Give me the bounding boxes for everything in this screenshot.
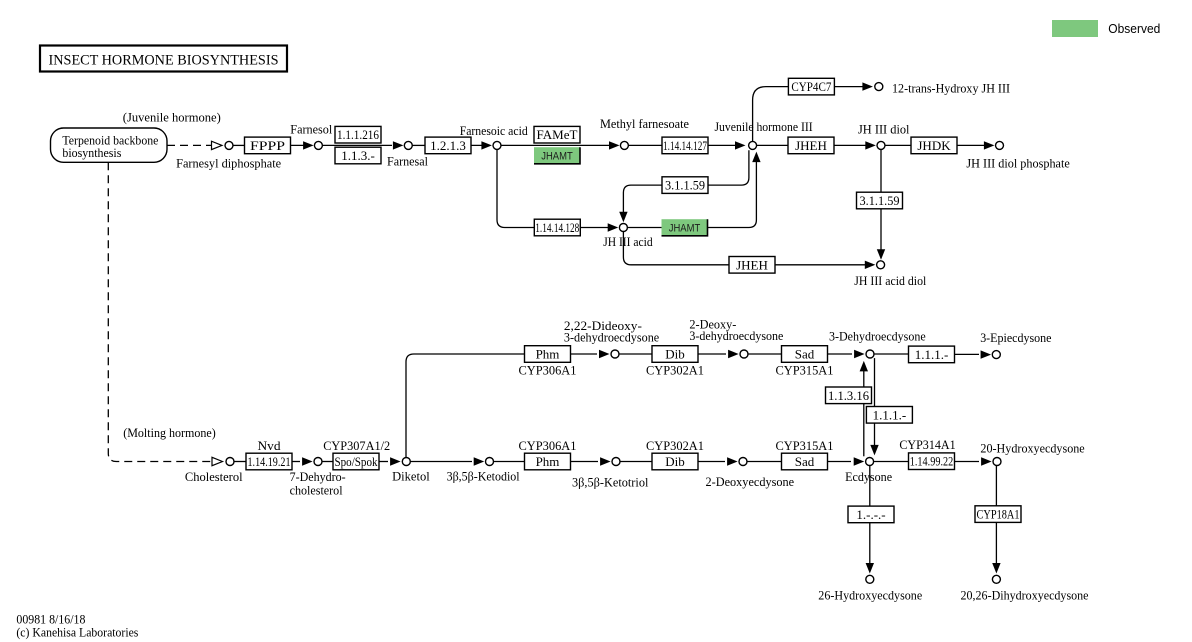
arrowhead into farnesoic acid [481, 141, 492, 149]
node JH III acid diol [877, 261, 885, 269]
gene box JHAMT (observed) bottom [662, 219, 708, 236]
wire CYP4C7 to 12-trans-hydroxy JH III [835, 86, 870, 88]
enzyme box 1.1.3.16 [826, 387, 872, 404]
svg-text:Ecdysone: Ecdysone [845, 469, 892, 484]
enzyme box FAMeT [534, 126, 580, 143]
svg-text:1.1.1.216: 1.1.1.216 [337, 127, 379, 142]
wire 3.1.1.59 right up to juvenile hormone III [708, 150, 749, 185]
wire Sad to ecdysone [828, 461, 852, 463]
wire juvenile hormone III up to CYP4C7 [753, 87, 789, 142]
svg-text:INSECT HORMONE BIOSYNTHESIS: INSECT HORMONE BIOSYNTHESIS [49, 53, 279, 69]
enzyme box FPPP [245, 137, 291, 154]
svg-text:1.-.-.-: 1.-.-.- [856, 507, 885, 522]
svg-text:Diketol: Diketol [392, 468, 430, 483]
arrowhead into 12-trans-hydroxy JH III [862, 82, 873, 90]
arrowhead into JH III acid from 3.1.1.59 [619, 212, 627, 223]
wire 1.1.1.- to 3-epiecdysone [955, 353, 980, 355]
svg-text:1.2.1.3: 1.2.1.3 [430, 138, 466, 153]
node Farnesol [314, 141, 322, 149]
svg-text:Phm: Phm [536, 347, 560, 362]
enzyme box Sad lower [782, 453, 828, 470]
node JH III diol phosphate [996, 141, 1004, 149]
svg-text:1.14.99.22: 1.14.99.22 [910, 454, 954, 469]
svg-text:2-Deoxyecdysone: 2-Deoxyecdysone [706, 474, 795, 489]
svg-text:3-dehydroecdysone: 3-dehydroecdysone [564, 329, 660, 344]
wire Dib to 2-deoxyecdysone [698, 461, 725, 463]
enzyme box Phm upper [525, 346, 571, 363]
wire 20-hydroxyecdysone down to CYP18A1 [995, 466, 997, 506]
wire Phm to ketotriol [571, 461, 599, 463]
svg-text:biosynthesis: biosynthesis [62, 145, 121, 160]
enzyme box 1.-.-.- [848, 506, 894, 523]
svg-text:JH III diol phosphate: JH III diol phosphate [966, 155, 1070, 170]
arrowhead into 3-epiecdysone [981, 350, 992, 358]
svg-text:20,26-Dihydroxyecdysone: 20,26-Dihydroxyecdysone [961, 588, 1089, 603]
svg-text:FPPP: FPPP [250, 138, 285, 153]
wire diketol to ketodiol [411, 461, 473, 463]
wire dashed link terpenoid to cholesterol-row [167, 144, 211, 146]
svg-text:3.1.1.59: 3.1.1.59 [860, 193, 900, 208]
node 3b,5b-Ketodiol [486, 458, 494, 466]
title box [40, 46, 287, 72]
node JH III acid [619, 224, 627, 232]
wire juvenile hormone III to JHEH [757, 144, 788, 146]
arrowhead into JH III acid [608, 223, 619, 231]
enzyme box Phm lower [525, 453, 571, 470]
wire cholesterol to 1.14.19.21 [234, 461, 246, 463]
enzyme box 1.14.19.21 [246, 453, 292, 470]
wire ecdysone to 1.14.99.22 [874, 461, 909, 463]
node 3-Dehydroecdysone [866, 350, 874, 358]
node Farnesal [404, 141, 412, 149]
arrowhead into 2,22-dideoxy-3-dehydroecdysone [599, 350, 610, 358]
wire 3.1.1.59 down to JH III acid diol [880, 209, 882, 250]
enzyme box 1.14.14.128 [534, 219, 580, 236]
wire JH III diol to JHDK [885, 144, 911, 146]
svg-text:Methyl farnesoate: Methyl farnesoate [600, 116, 689, 131]
enzyme box CYP4C7 [788, 78, 834, 95]
wire ecdysone down to 1.-.-.- [869, 466, 871, 506]
wire JH III acid to JHAMT [628, 227, 662, 229]
enzyme box Spo/Spok [333, 453, 379, 470]
node 3-Epiecdysone [992, 351, 1000, 359]
wire Phm upper to 2,22-dideoxy-3-dehydroecdysone [571, 353, 598, 355]
wire 1.14.19.21 to 7-dehydrocholesterol [292, 461, 300, 463]
wire 1.14.14.128 to JH III acid [580, 227, 615, 229]
arrowhead into 2-deoxyecdysone [727, 457, 738, 465]
wire 2-deoxyecdysone to Sad [747, 461, 781, 463]
svg-text:Sad: Sad [795, 454, 815, 469]
node Ecdysone [866, 458, 874, 466]
enzyme box 1.1.1.- upper right [909, 346, 955, 363]
svg-text:1.14.14.127: 1.14.14.127 [663, 138, 707, 153]
svg-text:JHDK: JHDK [917, 138, 951, 153]
arrowhead into 7-dehydrocholesterol [302, 457, 313, 465]
node Diketol [402, 458, 410, 466]
svg-text:3-dehydroecdysone: 3-dehydroecdysone [689, 328, 783, 343]
node 3b,5b-Ketotriol [612, 458, 620, 466]
wire JH III acid down to JHEH [623, 232, 729, 265]
svg-text:CYP302A1: CYP302A1 [646, 438, 704, 453]
wire farnesyl diphosphate to FPPP [233, 144, 244, 146]
svg-text:26-Hydroxyecdysone: 26-Hydroxyecdysone [818, 588, 922, 603]
wire 7-dehydrocholesterol to Spo/Spok [322, 461, 333, 463]
svg-text:1.1.3.-: 1.1.3.- [341, 148, 375, 163]
arrowhead into 20-hydroxyecdysone [981, 457, 992, 465]
arrowhead open into cholesterol [212, 457, 223, 465]
arrowhead into ketodiol [474, 457, 485, 465]
wire to Dib upper [619, 353, 652, 355]
node 7-Dehydrocholesterol [314, 458, 322, 466]
arrowhead into ketotriol [600, 457, 611, 465]
svg-text:JHAMT: JHAMT [669, 223, 701, 235]
node Juvenile hormone III [749, 141, 757, 149]
arrowhead into JH III diol phosphate [984, 141, 995, 149]
arrowhead into farnesol [303, 141, 314, 149]
svg-text:(Molting hormone): (Molting hormone) [123, 425, 216, 440]
arrowhead into 3-dehydroecdysone [854, 350, 865, 358]
wire 1.1.3.16 up line [863, 367, 865, 387]
svg-text:JH III acid: JH III acid [603, 234, 653, 249]
svg-text:20-Hydroxyecdysone: 20-Hydroxyecdysone [980, 440, 1085, 455]
enzyme box CYP18A1 [975, 506, 1021, 523]
svg-text:CYP307A1/2: CYP307A1/2 [323, 438, 390, 453]
arrowhead into juvenile hormone III [735, 141, 746, 149]
enzyme box Sad upper [782, 346, 828, 363]
arrowhead into farnesal [393, 141, 404, 149]
wire JHEH to JH III acid diol [775, 264, 873, 266]
enzyme box 1.1.3.- [335, 147, 381, 164]
svg-text:3β,5β-Ketotriol: 3β,5β-Ketotriol [572, 475, 649, 490]
wire CYP18A1 down to 20,26-dihydroxyecdysone [995, 522, 997, 563]
wire farnesol to farnesal [323, 144, 392, 146]
svg-text:CYP306A1: CYP306A1 [519, 363, 577, 378]
arrowhead into diketol [390, 457, 401, 465]
wire JHDK to JH III diol phosphate [957, 144, 992, 146]
arrowhead into 3-dehydroecdysone from 1.1.3.16 [860, 361, 868, 372]
wire methyl farnesoate to juvenile hormone III [629, 144, 735, 146]
svg-text:JH III acid diol: JH III acid diol [854, 273, 926, 288]
wire dashed link terpenoid to cholesterol [108, 162, 211, 461]
node 26-Hydroxyecdysone [866, 575, 874, 583]
wire 1.-.-.- down to 26-hydroxyecdysone [869, 523, 871, 563]
node JH III diol [877, 141, 885, 149]
svg-text:JHAMT: JHAMT [541, 151, 573, 163]
node 20,26-Dihydroxyecdysone [992, 575, 1000, 583]
svg-text:Farnesal: Farnesal [387, 153, 428, 168]
svg-text:3-Epiecdysone: 3-Epiecdysone [980, 330, 1051, 345]
svg-text:1.14.19.21: 1.14.19.21 [248, 454, 291, 469]
wire diketol up to Phm upper [406, 354, 524, 457]
arrowhead into JH III diol [865, 141, 876, 149]
svg-text:Phm: Phm [536, 454, 560, 469]
svg-text:CYP315A1: CYP315A1 [776, 438, 834, 453]
node Cholesterol [226, 458, 234, 466]
wire farnesoic acid to methyl farnesoate [501, 144, 617, 146]
arrowhead into JH III acid diol from above [877, 249, 885, 260]
node 12-trans-Hydroxy JH III [875, 83, 883, 91]
wire Spo/Spok to diketol [379, 461, 388, 463]
node Methyl farnesoate [620, 141, 628, 149]
wire FPPP to farnesol [291, 144, 312, 146]
arrowhead into JH III acid diol [865, 261, 876, 269]
node 2,22-Dideoxy-3-dehydroecdysone [611, 350, 619, 358]
wire 1.1.3.16 down to ecdysone [863, 404, 865, 457]
wire 1.2.1.3 to farnesoic acid [471, 144, 489, 146]
svg-text:1.1.3.16: 1.1.3.16 [828, 388, 869, 403]
enzyme box 1.14.99.22 [909, 453, 955, 470]
svg-text:cholesterol: cholesterol [290, 482, 343, 497]
node 2-Deoxyecdysone [739, 458, 747, 466]
wire farnesoic acid down to 1.14.14.128 [497, 150, 534, 228]
enzyme box Dib upper [652, 346, 698, 363]
node Farnesyl diphosphate [225, 141, 233, 149]
arrowhead into ecdysone from 1.1.1.- [870, 445, 878, 456]
svg-text:Observed: Observed [1108, 22, 1160, 36]
enzyme box 1.14.14.127 [662, 137, 708, 154]
svg-text:JHEH: JHEH [795, 138, 827, 153]
svg-text:1.1.1.-: 1.1.1.- [873, 407, 907, 422]
svg-text:CYP306A1: CYP306A1 [519, 438, 577, 453]
svg-text:CYP302A1: CYP302A1 [646, 363, 704, 378]
map link box Terpenoid backbone biosynthesis [51, 128, 168, 162]
svg-text:FAMeT: FAMeT [537, 127, 578, 142]
wire farnesal to 1.2.1.3 [413, 144, 426, 146]
svg-text:3-Dehydroecdysone: 3-Dehydroecdysone [829, 328, 926, 343]
svg-text:JHEH: JHEH [736, 257, 768, 272]
enzyme box JHDK [911, 137, 957, 154]
svg-text:3.1.1.59: 3.1.1.59 [665, 178, 705, 193]
legend observed color box [1052, 20, 1098, 37]
arrowhead into ecdysone [854, 457, 865, 465]
wire 3-dehydroecdysone down to 1.1.1.- [874, 358, 876, 406]
wire to Sad upper [748, 353, 781, 355]
svg-text:CYP315A1: CYP315A1 [776, 363, 834, 378]
enzyme box 1.1.1.216 [335, 126, 381, 143]
svg-text:JH III diol: JH III diol [858, 122, 910, 137]
wire ketodiol to Phm [494, 461, 525, 463]
svg-text:Dib: Dib [665, 454, 685, 469]
svg-text:(c) Kanehisa Laboratories: (c) Kanehisa Laboratories [16, 625, 138, 640]
svg-text:1.1.1.-: 1.1.1.- [915, 347, 949, 362]
wire 3.1.1.59 left down to JH III acid [623, 185, 662, 212]
gene box JHAMT (observed) top [534, 147, 580, 164]
svg-text:Dib: Dib [665, 347, 685, 362]
wire Dib upper to 2-deoxy-3-dehydroecdysone [698, 353, 726, 355]
enzyme box 3.1.1.59 left [662, 177, 708, 194]
arrowhead into methyl farnesoate [609, 141, 620, 149]
enzyme box 3.1.1.59 right [857, 192, 903, 209]
enzyme box 1.2.1.3 [425, 137, 471, 154]
svg-text:CYP18A1: CYP18A1 [977, 507, 1020, 522]
wire Sad upper to 3-dehydroecdysone [828, 353, 853, 355]
enzyme box Dib lower [652, 453, 698, 470]
arrowhead into 20,26-dihydroxyecdysone [992, 563, 1000, 574]
node 2-Deoxy-3-dehydroecdysone [740, 350, 748, 358]
svg-text:Farnesoic acid: Farnesoic acid [460, 123, 528, 138]
node Farnesoic acid [493, 141, 501, 149]
wire JHAMT up to juvenile hormone III [708, 161, 757, 228]
arrowhead into 26-hydroxyecdysone [866, 563, 874, 574]
arrowhead open into farnesyl diphosphate [212, 141, 223, 149]
svg-text:Nvd: Nvd [258, 438, 282, 453]
svg-text:Cholesterol: Cholesterol [185, 469, 243, 484]
svg-text:Sad: Sad [795, 347, 815, 362]
svg-text:(Juvenile hormone): (Juvenile hormone) [123, 110, 221, 125]
svg-text:Juvenile hormone III: Juvenile hormone III [715, 119, 813, 134]
enzyme box JHEH lower [729, 257, 775, 274]
arrowhead into 2-deoxy-3-dehydroecdysone [728, 350, 739, 358]
wire JHEH to JH III diol [834, 144, 873, 146]
wire 1.14.99.22 to 20-hydroxyecdysone [955, 461, 980, 463]
arrowhead into juvenile hormone III from JHAMT [752, 152, 760, 163]
svg-text:12-trans-Hydroxy JH III: 12-trans-Hydroxy JH III [892, 81, 1010, 96]
svg-text:Spo/Spok: Spo/Spok [335, 454, 378, 469]
wire ketotriol to Dib [620, 461, 652, 463]
wire JH III diol down to 3.1.1.59 [880, 150, 882, 193]
svg-text:Farnesyl diphosphate: Farnesyl diphosphate [176, 156, 281, 171]
enzyme box 1.1.1.- mid [866, 407, 912, 424]
enzyme box JHEH [788, 137, 834, 154]
svg-text:3β,5β-Ketodiol: 3β,5β-Ketodiol [447, 468, 520, 483]
svg-text:CYP4C7: CYP4C7 [791, 79, 831, 94]
svg-text:CYP314A1: CYP314A1 [899, 437, 955, 452]
node 20-Hydroxyecdysone [993, 458, 1001, 466]
svg-text:Farnesol: Farnesol [290, 122, 332, 137]
wire 3-dehydroecdysone to 1.1.1.- [874, 353, 908, 355]
wire 1.1.1.- down line [874, 423, 876, 445]
svg-text:1.14.14.128: 1.14.14.128 [535, 220, 579, 235]
